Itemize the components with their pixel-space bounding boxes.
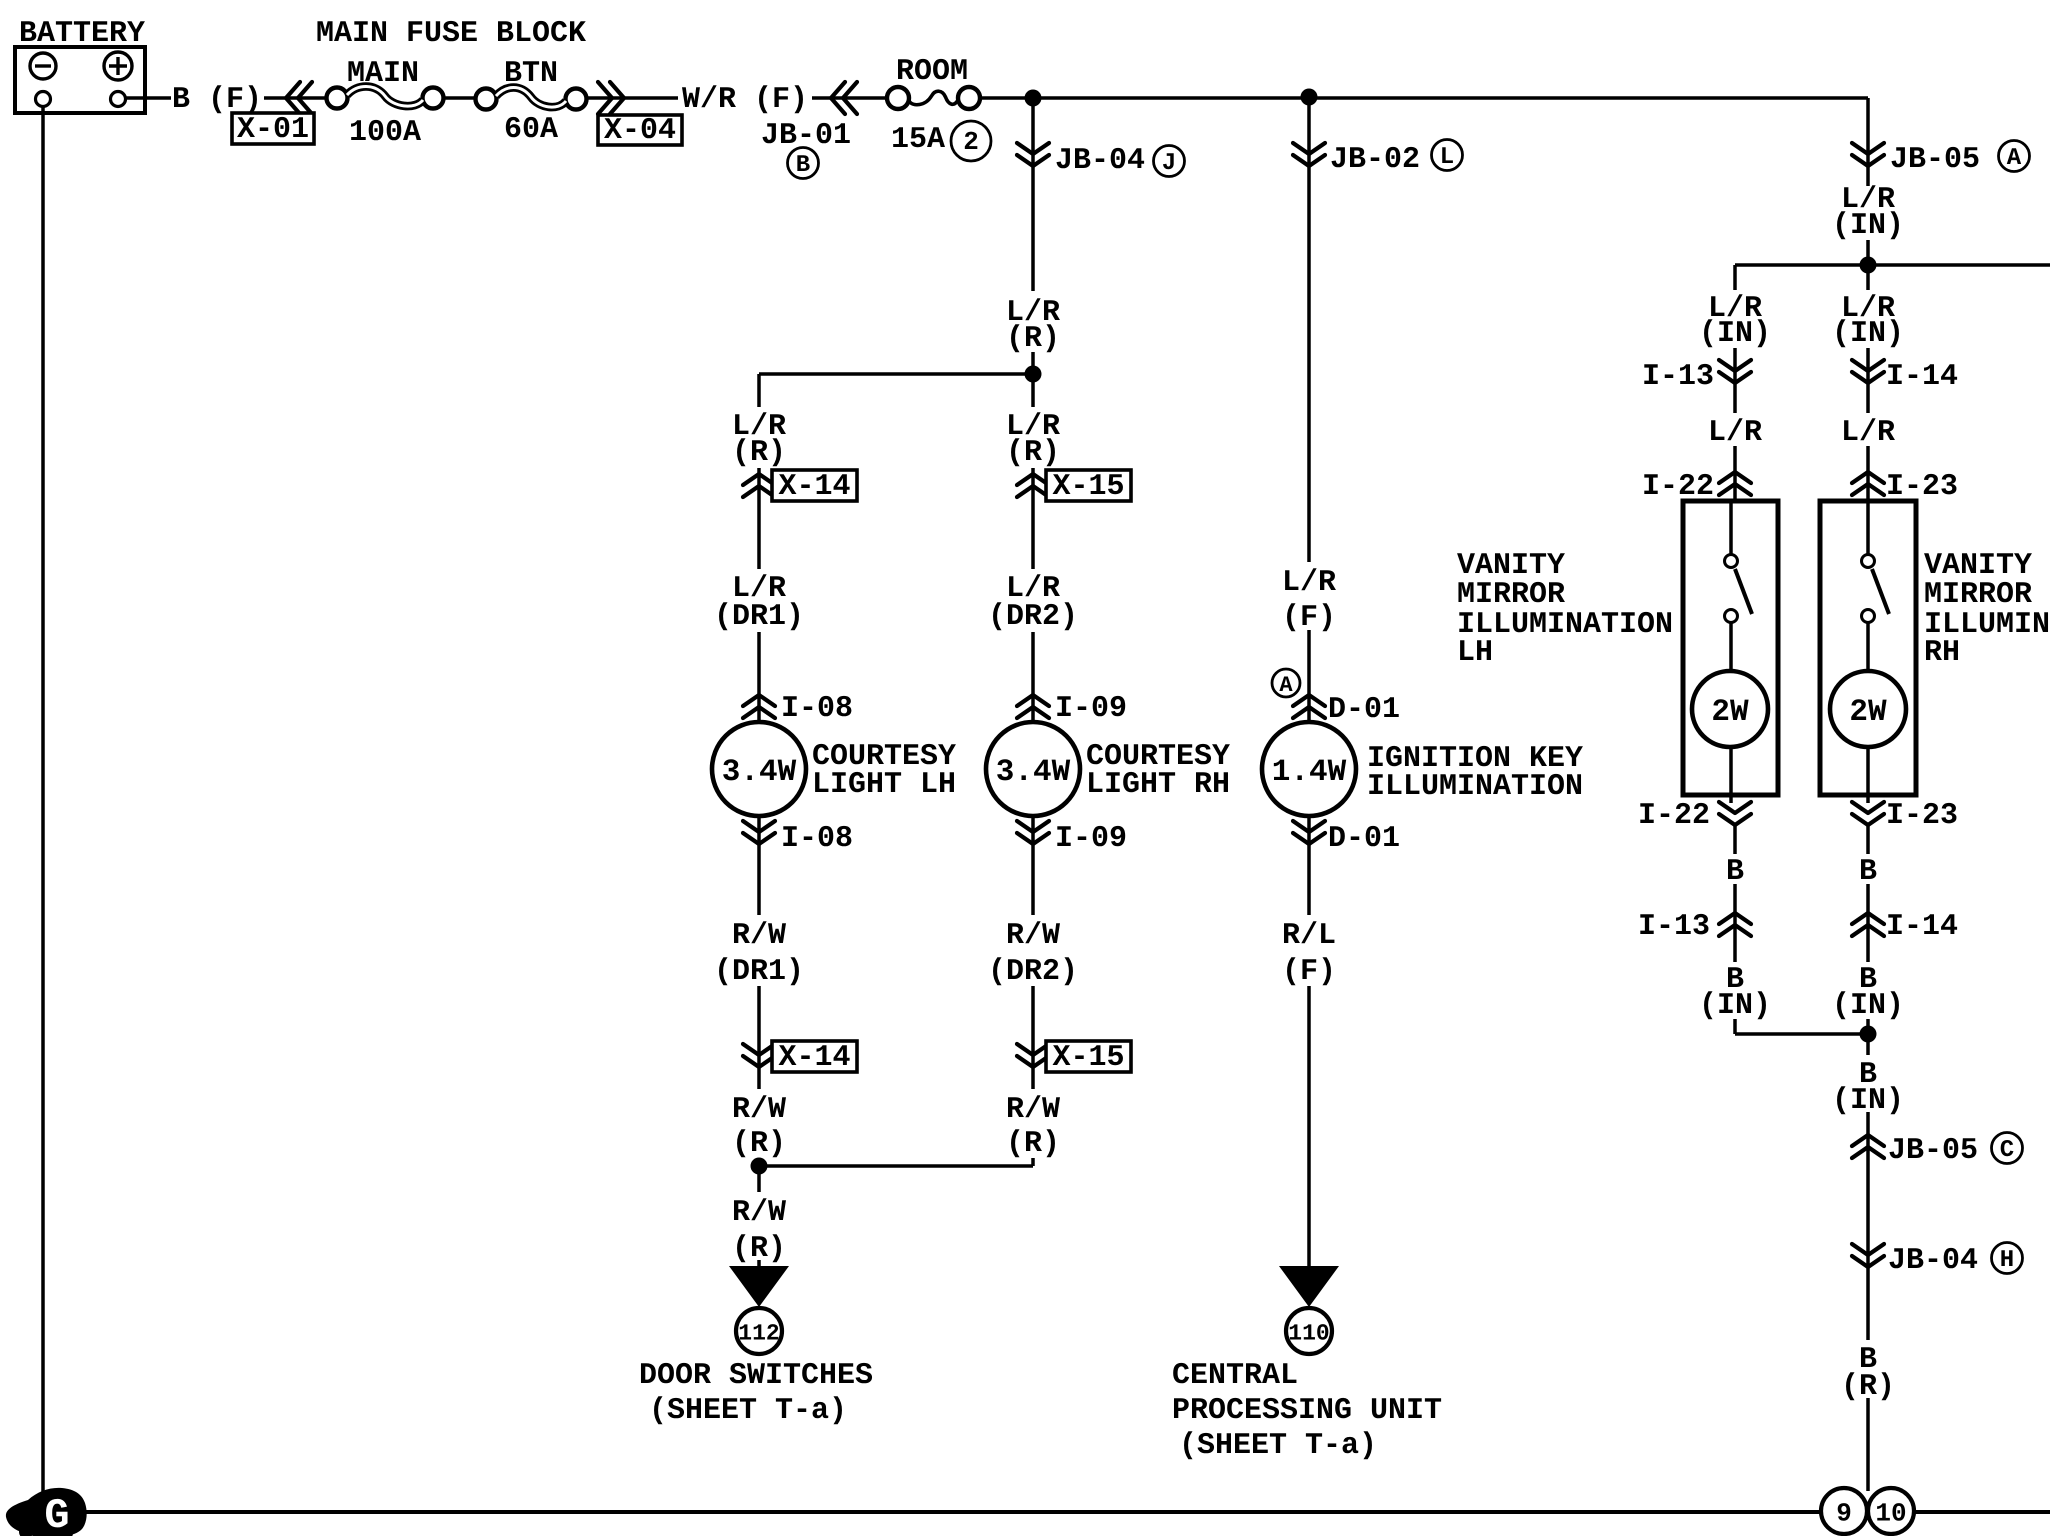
svg-text:R/W: R/W xyxy=(732,1196,786,1230)
svg-text:I-08: I-08 xyxy=(781,692,853,726)
fuse ROOM 15A xyxy=(887,87,980,109)
label L/R (IN) right xyxy=(1827,290,1909,351)
label JB-01 xyxy=(761,119,851,153)
connector I-13 chevron lower xyxy=(1719,913,1751,936)
svg-text:X-15: X-15 xyxy=(1052,1041,1124,1075)
svg-text:A: A xyxy=(1279,673,1293,698)
label L/R (IN) left xyxy=(1694,290,1776,351)
arrow to door switches xyxy=(729,1266,789,1307)
wire vanity RH upper xyxy=(1866,265,1870,501)
svg-text:(IN): (IN) xyxy=(1699,989,1771,1023)
label JB-05 A xyxy=(1890,143,1980,177)
wire vanity RH lower xyxy=(1866,826,1870,1034)
label L/R right2 xyxy=(1836,413,1900,450)
lamp ignition key illumination 1.4W xyxy=(1262,722,1356,816)
label I-23 upper xyxy=(1886,470,1958,504)
label L/R (DR1) xyxy=(700,569,818,634)
connector I-09 chevron upper xyxy=(1017,695,1049,718)
lamp courtesy light RH 3.4W xyxy=(986,722,1080,816)
wire top bus xyxy=(980,96,1868,100)
svg-text:(DR2): (DR2) xyxy=(988,600,1078,634)
connector JB-04 pin H xyxy=(1992,1243,2023,1275)
svg-text:L/R: L/R xyxy=(1841,416,1895,450)
label I-09 lower xyxy=(1055,822,1127,856)
svg-text:L/R: L/R xyxy=(1282,566,1336,600)
svg-text:JB-02: JB-02 xyxy=(1330,143,1420,177)
svg-text:G: G xyxy=(44,1492,69,1536)
connector JB-04 pin J xyxy=(1154,146,1185,178)
wire battery positive B(F) xyxy=(126,96,328,100)
svg-text:X-14: X-14 xyxy=(778,470,850,504)
svg-text:10: 10 xyxy=(1875,1498,1906,1528)
svg-text:3.4W: 3.4W xyxy=(996,755,1071,790)
label cpu sheet xyxy=(1179,1429,1377,1463)
label BTN xyxy=(504,57,558,91)
connector D-01 chevron lower xyxy=(1293,821,1325,844)
label MAIN xyxy=(347,57,419,91)
sheet ref 112 xyxy=(736,1308,782,1354)
svg-text:100A: 100A xyxy=(349,116,421,150)
lamp vanity RH 2W xyxy=(1830,671,1906,747)
svg-text:I-13: I-13 xyxy=(1642,360,1714,394)
connector I-23 chevron lower xyxy=(1852,802,1884,825)
svg-text:(IN): (IN) xyxy=(1699,317,1771,351)
wire vanity bus xyxy=(1735,263,2050,267)
svg-text:112: 112 xyxy=(738,1320,779,1346)
label R/L (F) xyxy=(1259,915,1359,989)
svg-text:I-14: I-14 xyxy=(1886,360,1958,394)
wire courtesy RH lower xyxy=(1031,816,1035,1166)
wire join horizontal xyxy=(759,1164,1033,1168)
svg-text:JB-04: JB-04 xyxy=(1055,144,1145,178)
wire switch RH to lamp xyxy=(1866,622,1870,722)
connector X-01 chevron xyxy=(286,82,312,114)
svg-text:I-08: I-08 xyxy=(781,822,853,856)
wire courtesy LH lower xyxy=(757,816,761,1166)
label COURTESY LIGHT RH xyxy=(1086,740,1230,802)
label COURTESY LIGHT LH xyxy=(812,740,956,802)
label VANITY MIRROR ILLUMINATION RH xyxy=(1924,549,2050,670)
label I-22 lower xyxy=(1638,799,1710,833)
connector X-15 chevron upper xyxy=(1017,474,1049,497)
wire courtesy split horizontal xyxy=(759,372,1033,376)
label B left xyxy=(1721,854,1749,889)
label L/R left2 xyxy=(1703,413,1767,450)
wire top bus corner down xyxy=(1866,98,1870,265)
label I-08 upper xyxy=(781,692,853,726)
svg-text:X-14: X-14 xyxy=(778,1041,850,1075)
connector JB-01 chevron xyxy=(831,82,857,114)
svg-text:A: A xyxy=(2007,145,2022,172)
vanity mirror LH box xyxy=(1683,501,1778,795)
label DOOR SWITCHES xyxy=(639,1359,873,1393)
svg-text:I-23: I-23 xyxy=(1886,799,1958,833)
svg-text:X-04: X-04 xyxy=(604,114,676,148)
svg-text:2W: 2W xyxy=(1711,695,1749,730)
ground symbol G xyxy=(6,1488,87,1536)
label R/W (R) right xyxy=(983,1089,1083,1161)
label I-23 lower xyxy=(1886,799,1958,833)
connector X-01 xyxy=(232,113,314,147)
wire JB-04 branch upper xyxy=(1031,98,1035,374)
svg-text:60A: 60A xyxy=(504,113,558,147)
ground bus xyxy=(36,1510,2050,1514)
label R/W (DR1) xyxy=(700,915,818,989)
label L/R (IN) top xyxy=(1827,183,1909,243)
svg-text:LH: LH xyxy=(1457,636,1493,670)
ground ref 9 xyxy=(1821,1488,1867,1534)
svg-text:(R): (R) xyxy=(1006,1127,1060,1161)
label B (IN) lower xyxy=(1827,1055,1909,1118)
wire switch LH to lamp xyxy=(1729,622,1733,722)
svg-text:ILLUMINATION: ILLUMINATION xyxy=(1367,770,1583,804)
connector D-01 chevron upper xyxy=(1293,695,1325,718)
wire vanity to ground bus xyxy=(1866,1034,1870,1491)
svg-text:R/W: R/W xyxy=(1006,1093,1060,1127)
label B (IN) left xyxy=(1694,962,1776,1023)
svg-text:RH: RH xyxy=(1924,636,1960,670)
node door switch join xyxy=(751,1158,768,1175)
node courtesy split xyxy=(1025,366,1042,383)
connector I-08 chevron lower xyxy=(743,821,775,844)
connector I-22 chevron upper xyxy=(1719,472,1751,495)
svg-text:JB-05: JB-05 xyxy=(1890,143,1980,177)
label 100A xyxy=(349,116,421,150)
svg-text:I-09: I-09 xyxy=(1055,822,1127,856)
label I-14 lower xyxy=(1886,910,1958,944)
wire lamp LH to box bottom xyxy=(1729,747,1733,803)
label L/R (R) upper xyxy=(983,291,1083,356)
label PROCESSING UNIT xyxy=(1172,1394,1442,1428)
connector I-09 chevron lower xyxy=(1017,821,1049,844)
label R/W (DR2) xyxy=(974,915,1092,989)
svg-text:X-15: X-15 xyxy=(1052,470,1124,504)
wire vanity LH upper xyxy=(1733,265,1737,501)
connector JB-02 pin L xyxy=(1432,140,1463,172)
label B (F) xyxy=(172,83,262,117)
svg-text:LIGHT RH: LIGHT RH xyxy=(1086,768,1230,802)
svg-text:R/W: R/W xyxy=(732,1093,786,1127)
connector X-14 lower xyxy=(772,1041,857,1075)
svg-text:(R): (R) xyxy=(732,436,786,470)
svg-text:PROCESSING UNIT: PROCESSING UNIT xyxy=(1172,1394,1442,1428)
svg-text:B: B xyxy=(1726,855,1744,889)
svg-text:(DR1): (DR1) xyxy=(714,955,804,989)
node vanity split xyxy=(1860,257,1877,274)
wire between fuses xyxy=(443,96,476,100)
svg-text:B: B xyxy=(796,152,810,179)
wire W/R(F) to JB-01 xyxy=(812,96,888,100)
wire ignition lower xyxy=(1307,816,1311,1268)
svg-text:2W: 2W xyxy=(1849,695,1887,730)
node JB-02 tap xyxy=(1301,89,1318,106)
svg-text:(DR1): (DR1) xyxy=(714,600,804,634)
connector I-13 chevron upper xyxy=(1719,360,1751,383)
svg-text:(IN): (IN) xyxy=(1832,1084,1904,1118)
svg-text:(R): (R) xyxy=(732,1232,786,1266)
connector X-14 chevron lower xyxy=(743,1044,775,1067)
wire switch RH top xyxy=(1866,501,1870,555)
svg-text:ROOM: ROOM xyxy=(896,55,968,89)
switch LH xyxy=(1725,555,1753,623)
svg-text:H: H xyxy=(2000,1247,2014,1274)
connector JB-05A chevron xyxy=(1852,143,1884,166)
connector JB-04H chevron xyxy=(1852,1244,1884,1267)
label W/R (F) xyxy=(682,83,808,117)
svg-text:X-01: X-01 xyxy=(237,113,309,147)
wire courtesy LH drop xyxy=(757,374,761,722)
connector JB-04 chevron xyxy=(1017,143,1049,166)
connector X-15 upper xyxy=(1046,470,1131,504)
svg-text:MAIN: MAIN xyxy=(347,57,419,91)
svg-text:(R): (R) xyxy=(1006,322,1060,356)
label MAIN FUSE BLOCK xyxy=(316,17,586,51)
vanity mirror RH box xyxy=(1820,501,1916,795)
svg-text:R/L: R/L xyxy=(1282,919,1336,953)
node vanity ground join xyxy=(1860,1026,1877,1043)
svg-text:MAIN FUSE BLOCK: MAIN FUSE BLOCK xyxy=(316,17,586,51)
connector X-14 chevron upper xyxy=(743,474,775,497)
wire switch LH top xyxy=(1729,501,1733,555)
label L/R (DR2) xyxy=(974,569,1092,634)
connector X-15 chevron lower xyxy=(1017,1044,1049,1067)
wire to door switches xyxy=(757,1166,761,1268)
wire fuse BTN to W/R(F) xyxy=(586,96,678,100)
svg-text:3.4W: 3.4W xyxy=(722,755,797,790)
svg-text:C: C xyxy=(2000,1137,2014,1164)
connector JB-02 chevron xyxy=(1293,143,1325,166)
battery xyxy=(15,17,145,113)
label 15A xyxy=(891,123,945,157)
label I-13 lower xyxy=(1638,910,1710,944)
svg-text:L: L xyxy=(1440,144,1454,171)
connector I-14 chevron upper xyxy=(1852,360,1884,383)
svg-text:(IN): (IN) xyxy=(1832,989,1904,1023)
connector X-04 chevron xyxy=(598,82,624,114)
label JB-04 H xyxy=(1888,1244,1978,1278)
label JB-04 xyxy=(1055,144,1145,178)
wire battery negative to ground bus xyxy=(41,106,45,1512)
connector I-14 chevron lower xyxy=(1852,913,1884,936)
label ROOM xyxy=(896,55,968,89)
svg-text:(DR2): (DR2) xyxy=(988,955,1078,989)
svg-text:L/R: L/R xyxy=(1708,416,1762,450)
svg-text:110: 110 xyxy=(1288,1320,1329,1346)
svg-text:CENTRAL: CENTRAL xyxy=(1172,1359,1298,1393)
svg-text:(R): (R) xyxy=(1841,1370,1895,1404)
svg-text:(R): (R) xyxy=(732,1127,786,1161)
connector JB-01 pin B xyxy=(788,148,819,180)
connector D-01 pin A xyxy=(1272,669,1300,698)
svg-text:DOOR SWITCHES: DOOR SWITCHES xyxy=(639,1359,873,1393)
svg-text:2: 2 xyxy=(963,127,979,157)
label L/R (F) xyxy=(1259,562,1359,635)
label JB-02 xyxy=(1330,143,1420,177)
label L/R (R) right xyxy=(983,407,1083,470)
node JB-04 tap xyxy=(1025,90,1042,107)
switch RH xyxy=(1862,555,1890,623)
label door sheet xyxy=(649,1394,847,1428)
wire lamp RH to box bottom xyxy=(1866,747,1870,803)
fuse BTN 60A xyxy=(476,88,587,110)
label R/W (R) left xyxy=(709,1089,809,1161)
wire courtesy RH drop xyxy=(1031,374,1035,722)
connector JB-05 pin C xyxy=(1992,1133,2023,1165)
fuse ROOM number 2 xyxy=(951,121,991,161)
connector X-04 xyxy=(598,114,682,148)
connector JB-05 pin A xyxy=(1999,141,2030,173)
svg-text:I-13: I-13 xyxy=(1638,910,1710,944)
svg-text:(IN): (IN) xyxy=(1832,317,1904,351)
label I-22 upper xyxy=(1642,470,1714,504)
arrow to CPU xyxy=(1279,1266,1339,1307)
label D-01 lower xyxy=(1328,822,1400,856)
connector I-08 chevron upper xyxy=(743,695,775,718)
wire vanity LH lower xyxy=(1733,826,1737,1034)
label I-14 upper xyxy=(1886,360,1958,394)
label JB-05 C xyxy=(1888,1134,1978,1168)
label D-01 upper xyxy=(1328,693,1400,727)
svg-text:15A: 15A xyxy=(891,123,945,157)
svg-text:B: B xyxy=(1859,855,1877,889)
label B right xyxy=(1854,854,1882,889)
label VANITY MIRROR ILLUMINATION LH xyxy=(1457,549,1673,670)
svg-text:I-22: I-22 xyxy=(1638,799,1710,833)
label B (R) xyxy=(1836,1340,1900,1404)
label 60A xyxy=(504,113,558,147)
svg-text:W/R (F): W/R (F) xyxy=(682,83,808,117)
svg-text:MIRROR: MIRROR xyxy=(1924,578,2032,612)
svg-text:R/W: R/W xyxy=(732,919,786,953)
svg-text:(IN): (IN) xyxy=(1832,209,1904,243)
label I-13 upper xyxy=(1642,360,1714,394)
label CENTRAL xyxy=(1172,1359,1298,1393)
svg-text:BTN: BTN xyxy=(504,57,558,91)
label R/W (R) lower xyxy=(709,1192,809,1266)
connector I-23 chevron upper xyxy=(1852,472,1884,495)
label I-09 upper xyxy=(1055,692,1127,726)
lamp courtesy light LH 3.4W xyxy=(712,722,806,816)
svg-text:JB-04: JB-04 xyxy=(1888,1244,1978,1278)
svg-text:(F): (F) xyxy=(1282,601,1336,635)
wire vanity LH join xyxy=(1735,1032,1868,1036)
lamp vanity LH 2W xyxy=(1692,671,1768,747)
label B (IN) right xyxy=(1827,962,1909,1023)
connector X-14 upper xyxy=(772,470,857,504)
connector X-15 lower xyxy=(1046,1041,1131,1075)
svg-text:JB-05: JB-05 xyxy=(1888,1134,1978,1168)
svg-text:(R): (R) xyxy=(1006,436,1060,470)
svg-text:I-09: I-09 xyxy=(1055,692,1127,726)
ground ref 10 xyxy=(1868,1488,1914,1534)
wire ignition branch xyxy=(1307,97,1311,722)
svg-text:R/W: R/W xyxy=(1006,919,1060,953)
fuse MAIN 100A xyxy=(327,87,444,109)
label L/R (R) left xyxy=(709,407,809,470)
svg-text:9: 9 xyxy=(1836,1498,1852,1528)
svg-text:(SHEET T-a): (SHEET T-a) xyxy=(1179,1429,1377,1463)
svg-text:LIGHT LH: LIGHT LH xyxy=(812,768,956,802)
svg-text:(SHEET T-a): (SHEET T-a) xyxy=(649,1394,847,1428)
connector JB-05C chevron xyxy=(1852,1135,1884,1158)
svg-text:I-14: I-14 xyxy=(1886,910,1958,944)
svg-text:D-01: D-01 xyxy=(1328,822,1400,856)
connector I-22 chevron lower xyxy=(1719,802,1751,825)
svg-text:J: J xyxy=(1162,150,1176,177)
svg-text:D-01: D-01 xyxy=(1328,693,1400,727)
svg-text:MIRROR: MIRROR xyxy=(1457,578,1565,612)
svg-text:1.4W: 1.4W xyxy=(1272,755,1347,790)
label IGNITION KEY ILLUMINATION xyxy=(1367,742,1583,804)
sheet ref 110 xyxy=(1286,1308,1332,1354)
svg-text:(F): (F) xyxy=(1282,955,1336,989)
label I-08 lower xyxy=(781,822,853,856)
